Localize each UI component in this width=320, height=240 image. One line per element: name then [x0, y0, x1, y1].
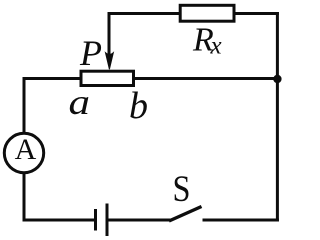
wire left upper (down to ammeter)	[23, 79, 26, 133]
ammeter A body	[4, 133, 43, 172]
wire top-right (Rx to right corner)	[234, 12, 277, 15]
switch blade	[169, 207, 202, 222]
battery short plate	[94, 209, 97, 231]
svg-text:Rx: Rx	[192, 22, 222, 60]
wire top-left (from arrow drop corner to Rx)	[109, 12, 180, 15]
svg-text:P: P	[79, 33, 102, 73]
wire bottom-left (to battery)	[24, 219, 94, 222]
wire middle-right (b terminal to right junction)	[134, 77, 277, 80]
svg-text:b: b	[129, 85, 148, 127]
junction node dot	[273, 75, 281, 83]
resistor Rx body	[180, 5, 234, 21]
arrowhead of wiper arrow	[106, 53, 114, 69]
wire arrow drop (P wiper feed)	[108, 14, 111, 55]
wire right vertical	[276, 14, 279, 221]
wire left lower (ammeter to bottom)	[23, 174, 26, 220]
wire battery to switch	[109, 219, 170, 222]
svg-text:S: S	[173, 169, 191, 210]
wire middle-left (a terminal to left corner)	[24, 77, 80, 80]
battery long plate	[106, 204, 109, 237]
svg-text:A: A	[15, 133, 37, 166]
potentiometer P body	[81, 71, 134, 85]
wire bottom-right (switch to right corner)	[204, 219, 277, 222]
svg-text:a: a	[69, 82, 91, 122]
